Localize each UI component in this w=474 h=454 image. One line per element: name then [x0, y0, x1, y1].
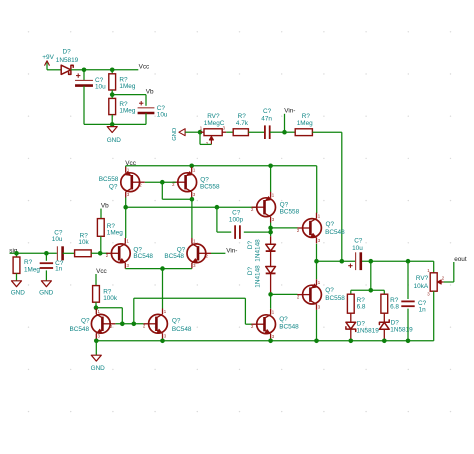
wire Vcc rail — [126, 165, 317, 167]
svg-text:GND: GND — [91, 365, 106, 372]
svg-text:BC548: BC548 — [164, 253, 184, 260]
wire Vcc top rail — [84, 69, 138, 71]
junction Q3/Q4 at out rail — [314, 259, 319, 264]
label eout — [454, 256, 467, 263]
transistor Q9 BC548 (sink right) — [143, 309, 192, 340]
capacitor C5 10u (output) — [348, 237, 363, 270]
svg-text:10kA: 10kA — [414, 283, 429, 290]
transistor Q2 BC558 (mirror right) — [172, 166, 220, 198]
svg-text:BC548: BC548 — [172, 326, 192, 333]
potentiometer RV2 10kA — [414, 261, 445, 341]
junction R5 top — [14, 251, 19, 256]
junction at R1 top — [110, 68, 115, 73]
svg-text:D?: D? — [63, 48, 72, 55]
label Vcc (mirror rail) — [125, 160, 136, 167]
wire base tie to Q7 base — [134, 298, 252, 324]
svg-text:Vcc: Vcc — [139, 64, 150, 71]
capacitor C6 10u (coupling) — [52, 230, 63, 261]
junction mirror-out / Q4 string — [123, 205, 128, 210]
wire pot to R3 — [226, 131, 233, 133]
resistor R7 1Meg (Vb) — [97, 209, 123, 254]
junction Q2 emitter at rail — [189, 164, 194, 169]
junction C5 left — [340, 259, 345, 264]
wire Q8 emitter to gnd — [95, 339, 97, 355]
svg-text:+9V: +9V — [42, 54, 54, 61]
svg-text:Q?: Q? — [280, 201, 289, 208]
power symbol +9V — [42, 54, 54, 70]
svg-text:R?: R? — [24, 259, 33, 266]
svg-text:RV?: RV? — [416, 275, 429, 282]
svg-text:D?: D? — [357, 321, 366, 328]
junction pot pin1 — [198, 130, 203, 135]
transistor Q7 BC548 (Vbe mult) — [251, 309, 299, 340]
wire Q6 collector down — [270, 223, 272, 237]
svg-text:Q?: Q? — [326, 221, 335, 228]
svg-text:Q?: Q? — [172, 318, 181, 325]
diode D1 1N5819 — [47, 48, 84, 74]
junction at D1/C1 — [82, 68, 87, 73]
wire Q9 collector up — [162, 269, 164, 309]
label Vb (mid) — [101, 203, 109, 210]
wire Q3 emitter to out rail — [316, 244, 318, 262]
capacitor C7 1n (input) — [40, 253, 64, 280]
wire power-section bottom — [84, 123, 146, 125]
svg-text:BC558: BC558 — [200, 183, 220, 190]
svg-text:eout: eout — [454, 256, 467, 263]
wire R6 to base node — [91, 252, 107, 254]
label Vcc (top) — [139, 64, 150, 71]
junction mirror-left base tie — [120, 322, 125, 327]
transistor Q1 BC558 (mirror left) — [99, 166, 145, 198]
svg-text:C?: C? — [354, 237, 363, 244]
svg-text:Q?: Q? — [325, 287, 334, 294]
label Vb (top) — [146, 88, 154, 95]
svg-text:D?: D? — [391, 320, 400, 327]
capacitor C2 10u — [138, 95, 168, 125]
label Vin- (diff input) — [211, 248, 237, 255]
svg-text:1N5819: 1N5819 — [356, 328, 379, 335]
svg-text:BC548: BC548 — [279, 324, 299, 331]
label Vcc (R8) — [96, 268, 107, 275]
ground GND (bottom) — [91, 355, 106, 372]
wire Q10 collector down — [316, 310, 318, 341]
wire junction to R4 — [285, 131, 296, 133]
ground GND (pot, arrow left) — [172, 128, 200, 141]
svg-text:1N4148: 1N4148 — [255, 265, 262, 288]
junction gnd D5 — [382, 339, 387, 344]
svg-text:Vb: Vb — [101, 203, 109, 210]
svg-text:GND: GND — [107, 137, 122, 144]
resistor R9 6.8 — [347, 294, 366, 313]
svg-text:1N5819: 1N5819 — [56, 57, 79, 64]
svg-text:BC558: BC558 — [99, 176, 119, 183]
svg-text:10u: 10u — [95, 84, 106, 91]
diode D2 1N4148 — [247, 236, 276, 261]
junction at GND power — [110, 122, 115, 127]
junction diff tail — [160, 266, 165, 271]
svg-text:1Meg: 1Meg — [119, 83, 135, 90]
wire mirror bases (bottom) — [115, 323, 143, 325]
transistor Q10 BC558 (driver) — [297, 261, 345, 310]
wire diode string to Q5 collector — [270, 294, 272, 308]
junction gnd Q9 — [160, 339, 165, 344]
svg-text:10u: 10u — [157, 112, 168, 119]
junction Vb-R / base — [98, 251, 103, 256]
wire Q7 emitter stub — [270, 340, 272, 341]
wire R3 to C3 — [248, 131, 264, 133]
resistor R8 100k — [93, 274, 118, 308]
transistor Q4 BC548 (diff left) — [106, 238, 154, 269]
wire mirror output rail — [126, 206, 257, 208]
junction C7 top — [44, 251, 49, 256]
junction C5 right — [369, 259, 374, 264]
junction gnd Q8 — [94, 339, 99, 344]
capacitor C3 47n — [261, 108, 272, 139]
wire Vcc rail down to Q3 — [316, 166, 318, 213]
svg-text:Vin-: Vin- — [226, 248, 237, 255]
junction base-to-Q7 tie — [132, 322, 137, 327]
ground GND (power section) — [107, 124, 122, 144]
resistor R10 6.8 — [381, 294, 400, 313]
ground GND (input R) — [11, 273, 26, 296]
svg-text:BC548: BC548 — [70, 326, 90, 333]
svg-text:BC558: BC558 — [280, 209, 300, 216]
svg-text:100k: 100k — [103, 295, 118, 302]
svg-text:D?: D? — [247, 240, 254, 249]
junction Q6/Q3 base — [268, 226, 273, 231]
label Vin- (top) — [284, 107, 295, 132]
svg-text:4.7k: 4.7k — [236, 120, 249, 127]
wire to Q3 base — [271, 227, 298, 229]
junction Q6/C4 — [268, 230, 273, 235]
svg-text:100p: 100p — [229, 217, 244, 224]
wire C3 to junction — [270, 131, 285, 133]
wire down to 6.8 resistors — [370, 261, 372, 290]
svg-text:GND: GND — [11, 290, 26, 297]
diode D4 1N5819 — [346, 313, 379, 341]
junction mirror bases — [160, 180, 165, 185]
potentiometer RV1 1MegC — [200, 113, 226, 146]
capacitor C4 100p — [229, 210, 244, 239]
svg-text:Q?: Q? — [279, 316, 288, 323]
svg-text:C?: C? — [263, 108, 272, 115]
svg-text:1n: 1n — [55, 266, 63, 273]
svg-text:47n: 47n — [261, 115, 272, 122]
svg-text:6.8: 6.8 — [390, 303, 399, 310]
svg-text:BC548: BC548 — [325, 229, 345, 236]
wire to Vb corner — [112, 94, 146, 96]
wire R4 to output rail — [312, 132, 341, 261]
junction diode bottom / Q4 base — [268, 292, 273, 297]
transistor Q3 BC548 (follower) — [297, 213, 345, 244]
svg-text:BC548: BC548 — [133, 253, 153, 260]
resistor R2 1Meg — [109, 95, 136, 125]
svg-text:1N4148: 1N4148 — [255, 239, 262, 262]
svg-text:GND: GND — [172, 128, 178, 141]
svg-text:6.8: 6.8 — [357, 303, 366, 310]
svg-text:1Meg: 1Meg — [297, 120, 313, 127]
label sig — [9, 247, 18, 254]
svg-text:1Meg: 1Meg — [119, 108, 135, 115]
wire C4 drop — [217, 207, 231, 232]
resistor R6 10k — [75, 233, 92, 257]
diode D3 1N4148 — [247, 251, 276, 295]
svg-text:1Meg: 1Meg — [107, 230, 123, 237]
svg-text:R?: R? — [238, 113, 247, 120]
junction gnd C8 — [406, 339, 411, 344]
svg-text:10u: 10u — [352, 245, 363, 252]
wire base junction down-right — [162, 182, 191, 199]
wire mirror bases — [145, 181, 176, 183]
junction 6.8 resistor tie — [369, 288, 374, 293]
svg-text:R?: R? — [302, 113, 311, 120]
wire pot wiper to pin1 — [200, 132, 211, 144]
junction C4 tap — [215, 205, 220, 210]
svg-text:10u: 10u — [52, 236, 63, 243]
junction Vin- tap — [282, 130, 287, 135]
svg-text:RV?: RV? — [207, 113, 220, 120]
resistor R1 1Meg — [109, 70, 136, 95]
wire C4 to Q6 collector — [244, 231, 271, 233]
junction Q6 emitter at rail — [268, 164, 273, 169]
svg-text:Vcc: Vcc — [96, 268, 107, 275]
resistor R5 1Meg (input) — [13, 253, 40, 273]
svg-text:Q?: Q? — [109, 184, 118, 191]
svg-text:Vb: Vb — [146, 88, 154, 95]
junction gnd Q7 — [268, 339, 273, 344]
svg-text:Q?: Q? — [81, 318, 90, 325]
wire wiper to eout — [444, 262, 454, 282]
junction C8 top — [406, 259, 411, 264]
wire down to Q4 collector — [125, 207, 127, 238]
resistor R4 1Meg — [295, 113, 313, 135]
ground GND (input C) — [39, 281, 54, 297]
wire sig input — [10, 252, 57, 254]
svg-text:BC558: BC558 — [325, 295, 345, 302]
svg-text:D?: D? — [247, 266, 254, 275]
capacitor C1 10u — [75, 70, 106, 125]
wire Q1 collector down — [125, 198, 127, 208]
wire ground rail — [96, 340, 434, 342]
svg-text:1n: 1n — [419, 306, 427, 313]
wire C6 to R6 — [63, 252, 75, 254]
wire R8 to mirror bases — [96, 308, 122, 324]
wire to Q4 base — [271, 293, 298, 295]
junction Q2 collector tie — [190, 197, 195, 202]
transistor Q5 BC548 (diff right) — [164, 238, 211, 269]
wire Q9 emitter stub — [162, 339, 164, 341]
resistor R3 4.7k — [233, 113, 249, 135]
wire diff emitters — [125, 268, 192, 270]
junction R1/R2/Vb — [110, 92, 115, 97]
transistor Q6 BC558 (2nd stage) — [251, 166, 300, 223]
svg-text:10k: 10k — [78, 239, 89, 246]
wire 6.8 tops — [351, 290, 385, 294]
transistor Q8 BC548 (sink left) — [70, 308, 116, 339]
junction gnd Q10 — [314, 339, 319, 344]
svg-text:1N5819: 1N5819 — [390, 327, 413, 334]
wire output rail — [317, 260, 434, 262]
svg-text:1Meg: 1Meg — [24, 267, 40, 274]
capacitor C8 1n (output) — [401, 261, 426, 341]
diode D5 1N5819 — [379, 313, 413, 341]
svg-text:GND: GND — [39, 290, 54, 297]
junction gnd D4 — [349, 339, 354, 344]
wire Q2 collector to Q5 collector — [191, 198, 193, 239]
junction R8 bottom — [94, 305, 99, 310]
svg-text:Vin-: Vin- — [284, 107, 295, 114]
